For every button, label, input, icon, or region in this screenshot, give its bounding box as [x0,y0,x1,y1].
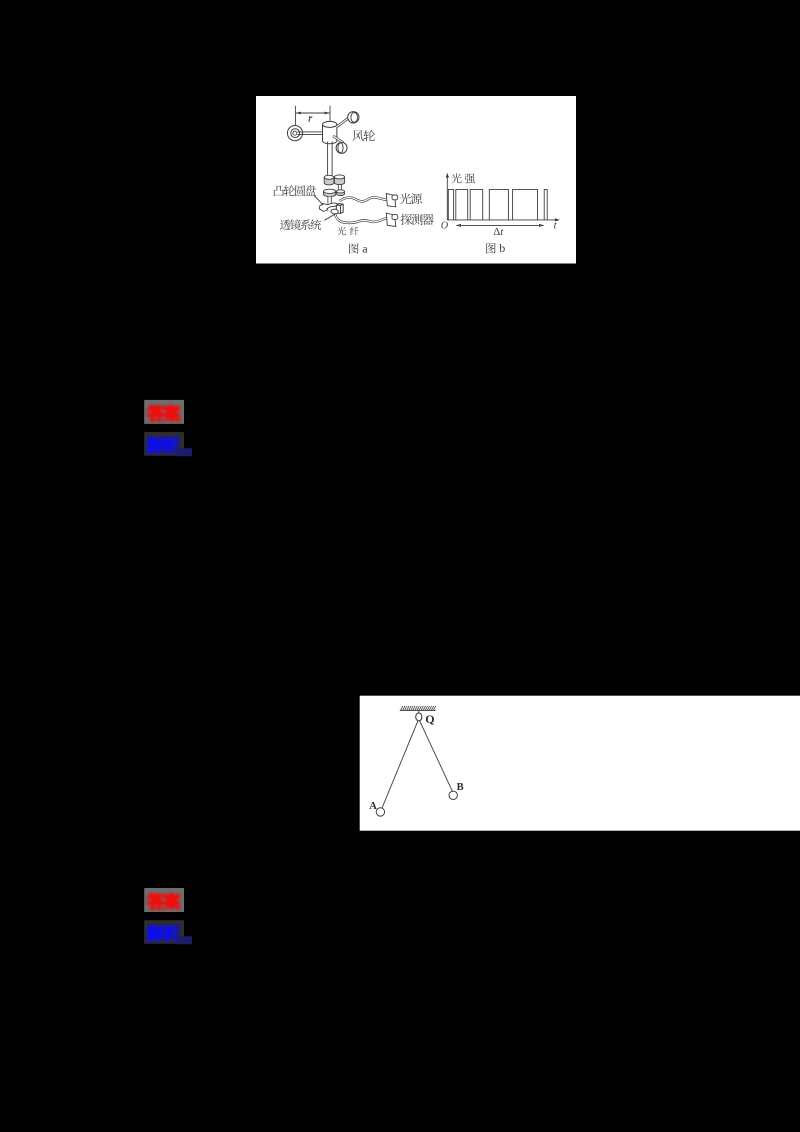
label toujingxitong [280,219,291,229]
figure a white panel [256,96,576,264]
pulse train [448,189,547,220]
navy tag 2 [177,936,192,944]
analysis badge 1 (blue) [144,432,184,456]
detector connector plate [386,213,396,227]
dimension tick left [294,106,296,126]
arm to bottom-right cup [333,136,343,143]
label tanceqi [401,214,412,225]
label guangxian [337,227,346,236]
lens 3d box top [336,204,343,206]
rod below right spool [338,185,341,192]
light source horn [392,195,398,200]
svg-text:b: b [499,241,505,255]
graph x-axis [447,219,556,221]
svg-text:a: a [362,241,368,255]
lens 3d box side [340,204,343,213]
spool upper-right [334,177,344,185]
analysis badge 2 (blue) [144,920,184,944]
pin [418,710,420,713]
svg-text:O: O [441,221,448,232]
wind cup top-right [348,112,359,123]
ball B [449,791,457,799]
label guangqiang (light intensity) [451,173,461,183]
cam disc [324,191,336,196]
corner dot right [342,204,344,206]
optical fiber upper [340,197,392,201]
svg-text:B: B [457,782,464,793]
svg-text:Q: Q [425,712,434,726]
optical fiber lower [335,214,392,223]
leader line cam label [314,196,322,205]
wind cup bottom-right [336,142,347,153]
spool upper-left [324,177,334,185]
lens plate front edge [319,206,328,211]
arm to top-right cup [337,117,350,127]
ball A [376,808,384,816]
label tulunyuanpan [274,186,284,197]
string to A [382,721,418,808]
answer badge 2 (red) [144,888,184,912]
navy tag 1 [177,448,192,456]
graph y-axis [446,176,448,220]
svg-text:A: A [369,801,377,812]
ceiling hatching [401,706,436,710]
dimension arrow r [296,112,329,114]
delta t span arrow [457,224,544,226]
ring Q [416,713,422,721]
corner dot left [322,204,324,206]
ceiling line [400,709,436,711]
wind cup left (concentric circles) [287,126,302,141]
dimension tick right [329,106,331,122]
string to B [420,721,453,792]
svg-text:r: r [308,113,312,124]
svg-text:Δt: Δt [493,226,504,238]
lens system plate [319,203,340,210]
pendulum white panel [360,696,800,831]
label guangyuan [400,193,411,204]
caption figure a [349,243,358,253]
hub cylinder [323,124,337,143]
light source connector plate [386,193,396,207]
small disc right of cam [337,191,345,195]
caption figure b [486,243,495,253]
horizontal rod [298,132,323,135]
lens 3d box front [336,205,340,213]
rod below cam disc [328,197,331,204]
detector horn [392,215,398,220]
leader line lens label [324,214,336,221]
label fenglun [352,130,363,141]
vertical shaft [328,142,333,177]
answer badge 1 (red) [144,400,184,424]
lens bracket [331,209,338,214]
